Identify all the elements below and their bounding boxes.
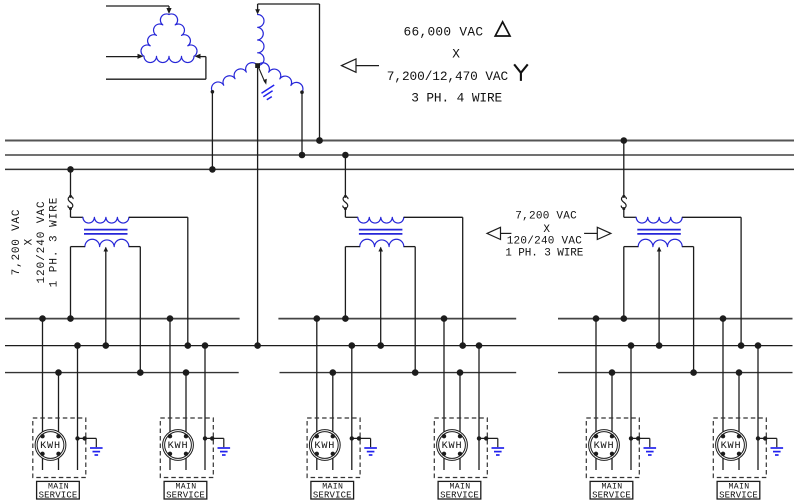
- node wye phase B end: [211, 90, 215, 94]
- wire T2 primary return to neutral bus: [404, 217, 463, 345]
- meter M5 terminal dots: [594, 434, 614, 456]
- transformer T2 secondary coil: [360, 239, 404, 246]
- 3-phase primary bus phase B: [5, 154, 794, 156]
- meter M5 enclosure dashed box: [586, 418, 639, 478]
- label X (left, rotated): [24, 238, 36, 245]
- junction dot M1 hot1 on bus: [39, 315, 46, 322]
- arrowhead at delta apex: [166, 8, 171, 14]
- meter M2 enclosure dashed box: [160, 418, 213, 478]
- node wye phase C end: [300, 90, 304, 94]
- wire T2 center tap to neutral bus: [380, 248, 382, 346]
- junction dot M4 neutral on bus: [476, 342, 483, 349]
- meter M6 enclosure dashed box: [713, 418, 766, 478]
- junction dot T2 center tap on neutral bus: [377, 342, 384, 349]
- wire meter M6 hot leg 2: [738, 373, 740, 470]
- junction dot M6 hot2 on bus: [736, 369, 743, 376]
- svg-text:7,200/12,470 VAC: 7,200/12,470 VAC: [387, 69, 509, 84]
- junction dot T2 secondary right on hot bus 2: [412, 369, 419, 376]
- wye neutral junction: [255, 63, 260, 68]
- label MAIN SERVICE M4: [440, 482, 479, 500]
- junction dots M6 ground tap: [756, 436, 768, 440]
- junction dot T3 secondary left on hot bus 1: [621, 315, 628, 322]
- meter M1 enclosure dashed box: [33, 418, 86, 478]
- meter M4 terminal dots: [442, 434, 462, 456]
- wire meter M5 neutral leg: [630, 346, 632, 470]
- label 120/240 VAC (left, rotated): [36, 200, 48, 283]
- svg-text:SERVICE: SERVICE: [440, 490, 479, 500]
- arrowhead at delta right vertex: [195, 54, 201, 59]
- transformer T2 core: [359, 230, 403, 234]
- main service label box M1: [37, 481, 80, 499]
- svg-text:X: X: [452, 47, 460, 62]
- wire HV feed line 2 to delta left vertex: [106, 56, 139, 58]
- earth ground symbol M6: [771, 448, 784, 455]
- wire T1 fuse to primary coil: [71, 209, 83, 218]
- fuse cutout T3: [621, 195, 626, 210]
- main service label box M5: [590, 481, 633, 499]
- junction dots M2 ground tap: [203, 436, 215, 440]
- transformer T1 secondary coil: [85, 239, 129, 246]
- label 7,200/12,470 VAC wye: [387, 65, 527, 84]
- meter M4 enclosure dashed box: [434, 418, 487, 478]
- arrowhead at delta left vertex: [138, 54, 144, 59]
- label KWH meter M3: [314, 441, 335, 452]
- svg-text:120/240 VAC: 120/240 VAC: [36, 200, 48, 283]
- junction dot T3 primary tap: [621, 137, 628, 144]
- junction dot M5 hot1 on bus: [593, 315, 600, 322]
- wire T1 primary return to neutral bus: [129, 217, 188, 345]
- svg-text:KWH: KWH: [594, 441, 615, 452]
- wire M1 ground tap: [78, 438, 97, 447]
- svg-text:7,200 VAC: 7,200 VAC: [515, 211, 577, 223]
- label 3 PH. 4 WIRE: [411, 91, 502, 106]
- label MAIN SERVICE M3: [313, 482, 352, 500]
- label MAIN SERVICE M5: [592, 482, 631, 500]
- transformer T3 secondary coil: [638, 239, 682, 246]
- junction dot wye phase B on bus C: [209, 166, 216, 173]
- wire meter M3 neutral leg: [351, 346, 353, 470]
- transformer T1 core: [84, 230, 128, 234]
- junction dot M2 hot2 on bus: [183, 369, 190, 376]
- label X (middle): [543, 224, 550, 236]
- junction dot M6 hot1 on bus: [720, 315, 727, 322]
- wire meter M4 neutral leg: [478, 346, 480, 470]
- meter M1 KWH meter circle: [35, 430, 66, 461]
- wire M5 ground tap: [631, 438, 650, 447]
- arrowhead T2 center tap: [378, 247, 383, 252]
- fuse cutout T2: [343, 195, 348, 210]
- wire meter M1 neutral leg: [77, 346, 79, 470]
- label KWH meter M1: [40, 441, 61, 452]
- label 1 PH. 3 WIRE (middle): [505, 247, 584, 259]
- wire T3 secondary right leg: [682, 247, 693, 373]
- junction dot M3 hot1 on bus: [314, 315, 321, 322]
- junction dot M3 neutral on bus: [349, 342, 356, 349]
- delta winding coil left side: [141, 14, 169, 56]
- delta winding coil right side: [169, 14, 197, 56]
- meter M2 terminal dots: [168, 434, 188, 456]
- label X (top): [452, 47, 460, 62]
- earth ground symbol M3: [364, 448, 377, 455]
- wire wye top feed: [258, 4, 320, 141]
- label MAIN SERVICE M1: [39, 482, 78, 500]
- arrow pointing right (middle annotation): [584, 227, 611, 239]
- junction dot M5 hot2 on bus: [609, 369, 616, 376]
- wire meter M6 hot leg 1: [722, 319, 724, 470]
- svg-text:120/240 VAC: 120/240 VAC: [507, 236, 583, 248]
- meter M6 KWH meter circle: [716, 430, 747, 461]
- wire meter M1 hot leg 1: [42, 319, 44, 470]
- svg-text:X: X: [543, 224, 550, 236]
- svg-text:1 PH. 3 WIRE: 1 PH. 3 WIRE: [48, 197, 60, 288]
- junction dots M3 ground tap: [350, 436, 362, 440]
- meter M3 enclosure dashed box: [307, 418, 360, 478]
- junction dot T1 secondary right on hot bus 2: [137, 369, 144, 376]
- svg-text:1 PH. 3 WIRE: 1 PH. 3 WIRE: [505, 247, 584, 259]
- wire M4 ground tap: [479, 438, 498, 447]
- svg-text:KWH: KWH: [168, 441, 189, 452]
- earth ground symbol M1: [90, 448, 103, 455]
- junction dot M1 hot2 on bus: [55, 369, 62, 376]
- wire T2 secondary right leg: [404, 247, 415, 373]
- label 7,200 VAC (left, rotated): [11, 209, 23, 276]
- wire M2 ground tap: [205, 438, 224, 447]
- delta winding coil bottom side: [144, 56, 194, 62]
- label 120/240 VAC (middle): [507, 236, 583, 248]
- wire fuse drop transformer T2: [344, 155, 346, 196]
- svg-text:SERVICE: SERVICE: [313, 490, 352, 500]
- wire meter M6 neutral leg: [757, 346, 759, 470]
- arrow pointing left (middle annotation): [487, 227, 511, 239]
- arrowhead T1 center tap: [104, 247, 109, 252]
- secondary neutral bus: [5, 345, 793, 347]
- wire T1 secondary right leg: [129, 247, 140, 373]
- wire meter M1 hot leg 2: [58, 373, 60, 470]
- junction dot M1 neutral on bus: [74, 342, 81, 349]
- main service label box M3: [311, 481, 354, 499]
- svg-text:3 PH. 4 WIRE: 3 PH. 4 WIRE: [411, 91, 502, 106]
- label KWH meter M4: [442, 441, 463, 452]
- wire meter M3 hot leg 2: [332, 373, 334, 470]
- label KWH meter M5: [594, 441, 615, 452]
- ground symbol at wye neutral: [262, 85, 275, 100]
- arrowhead T3 center tap: [657, 247, 662, 252]
- junction dot M5 neutral on bus: [628, 342, 635, 349]
- label KWH meter M6: [721, 441, 742, 452]
- wire HV feed line 1 to delta apex: [106, 6, 169, 12]
- label 1 PH. 3 WIRE (left, rotated): [48, 197, 60, 288]
- wire fuse drop transformer T1: [70, 169, 72, 196]
- meter M4 KWH meter circle: [437, 430, 468, 461]
- label MAIN SERVICE M2: [166, 482, 205, 500]
- wire T2 fuse to primary coil: [345, 209, 357, 218]
- meter M3 KWH meter circle: [309, 430, 340, 461]
- junction dot M2 hot1 on bus: [167, 315, 174, 322]
- svg-text:7,200 VAC: 7,200 VAC: [11, 209, 23, 276]
- wire T3 center tap to neutral bus: [658, 248, 660, 346]
- wire T2 secondary left leg: [345, 247, 359, 319]
- main service label box M4: [438, 481, 481, 499]
- meter M6 terminal dots: [721, 434, 741, 456]
- wire meter M3 hot leg 1: [316, 319, 318, 470]
- svg-text:KWH: KWH: [442, 441, 463, 452]
- junction dot wye top feed on bus A: [316, 137, 323, 144]
- ground arrow from wye neutral: [259, 68, 267, 85]
- label MAIN SERVICE M6: [719, 482, 758, 500]
- junction dot M3 hot2 on bus: [330, 369, 337, 376]
- svg-text:SERVICE: SERVICE: [39, 490, 78, 500]
- wire T1 secondary left leg: [71, 247, 85, 319]
- secondary bus hot leg 2 segments: [5, 372, 793, 374]
- earth ground symbol M5: [644, 448, 657, 455]
- junction dot T1 primary return on neutral bus: [185, 342, 192, 349]
- wire wye phase C down to bus B: [301, 92, 303, 155]
- label 7,200 VAC (middle): [515, 211, 577, 223]
- earth ground symbol M2: [218, 448, 231, 455]
- transformer T3 primary coil: [636, 217, 682, 223]
- svg-text:SERVICE: SERVICE: [719, 490, 758, 500]
- svg-text:X: X: [24, 238, 36, 245]
- junction dot T3 secondary right on hot bus 2: [690, 369, 697, 376]
- wire T3 fuse to primary coil: [624, 209, 636, 218]
- secondary bus hot leg 1 segments: [5, 318, 793, 320]
- meter M5 KWH meter circle: [589, 430, 620, 461]
- transformer T3 core: [637, 230, 681, 234]
- junction dot M4 hot1 on bus: [441, 315, 448, 322]
- earth ground symbol M4: [492, 448, 505, 455]
- wire meter M5 hot leg 2: [611, 373, 613, 470]
- main service label box M2: [164, 481, 207, 499]
- meter M3 terminal dots: [315, 434, 335, 456]
- junction dot T2 primary tap: [342, 152, 349, 159]
- svg-text:SERVICE: SERVICE: [592, 490, 631, 500]
- wire meter M4 hot leg 1: [443, 319, 445, 470]
- wire T1 center tap to neutral bus: [105, 248, 107, 346]
- junction dots M5 ground tap: [629, 436, 641, 440]
- wire fuse drop transformer T3: [623, 141, 625, 197]
- wye coil phase A vertical: [258, 15, 264, 66]
- junction dot T1 secondary left on hot bus 1: [67, 315, 74, 322]
- wye coil phase B lower-left: [212, 63, 258, 92]
- junction dot T1 center tap on neutral bus: [103, 342, 110, 349]
- wire T3 secondary left leg: [624, 247, 638, 319]
- wire HV feed line 3 to delta right vertex: [106, 57, 206, 80]
- arrow pointing left (top annotation): [342, 59, 380, 72]
- wire wye phase B down to bus C: [211, 92, 213, 170]
- svg-text:KWH: KWH: [721, 441, 742, 452]
- svg-text:66,000 VAC: 66,000 VAC: [404, 25, 484, 40]
- transformer T2 primary coil: [358, 217, 404, 223]
- junction dot M4 hot2 on bus: [457, 369, 464, 376]
- junction dot M6 neutral on bus: [755, 342, 762, 349]
- svg-text:SERVICE: SERVICE: [166, 490, 205, 500]
- wire meter M2 neutral leg: [204, 346, 206, 470]
- label KWH meter M2: [168, 441, 189, 452]
- svg-text:KWH: KWH: [314, 441, 335, 452]
- transformer T1 primary coil: [83, 217, 129, 223]
- wire meter M2 hot leg 2: [185, 373, 187, 470]
- main service label box M6: [717, 481, 760, 499]
- junction dot T2 primary return on neutral bus: [459, 342, 466, 349]
- junction dot M2 neutral on bus: [202, 342, 209, 349]
- meter M1 terminal dots: [40, 434, 60, 456]
- wire wye neutral down to secondary neutral bus: [257, 66, 259, 346]
- fuse cutout T1: [68, 195, 73, 210]
- junction dots M1 ground tap: [75, 436, 87, 440]
- junction dot T3 primary return on neutral bus: [738, 342, 745, 349]
- junction dot T3 center tap on neutral bus: [656, 342, 663, 349]
- meter M2 KWH meter circle: [163, 430, 194, 461]
- wire meter M4 hot leg 2: [459, 373, 461, 470]
- junction dots M4 ground tap: [477, 436, 489, 440]
- arrowhead at wye top coil: [255, 9, 260, 14]
- wire meter M5 hot leg 1: [595, 319, 597, 470]
- junction dot wye neutral on neutral bus: [254, 342, 261, 349]
- wye coil phase C lower-right: [258, 63, 303, 92]
- wire meter M2 hot leg 1: [169, 319, 171, 470]
- 3-phase primary bus phase A: [5, 140, 794, 142]
- 3-phase primary bus phase C: [5, 168, 794, 170]
- junction dot wye phase C on bus B: [299, 152, 306, 159]
- wire M3 ground tap: [352, 438, 371, 447]
- wire M6 ground tap: [758, 438, 777, 447]
- junction dot T2 secondary left on hot bus 1: [342, 315, 349, 322]
- junction dot T1 primary tap: [67, 166, 74, 173]
- wire T3 primary return to neutral bus: [682, 217, 741, 345]
- label 66,000 VAC delta: [404, 22, 511, 40]
- svg-text:KWH: KWH: [40, 441, 61, 452]
